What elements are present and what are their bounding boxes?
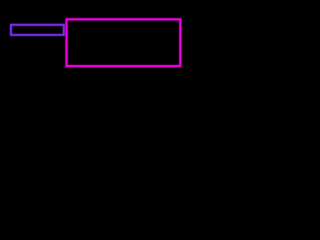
large magenta rectangle outline [67, 19, 181, 66]
schematic canvas [0, 0, 200, 137]
small violet rectangle outline [11, 25, 64, 35]
